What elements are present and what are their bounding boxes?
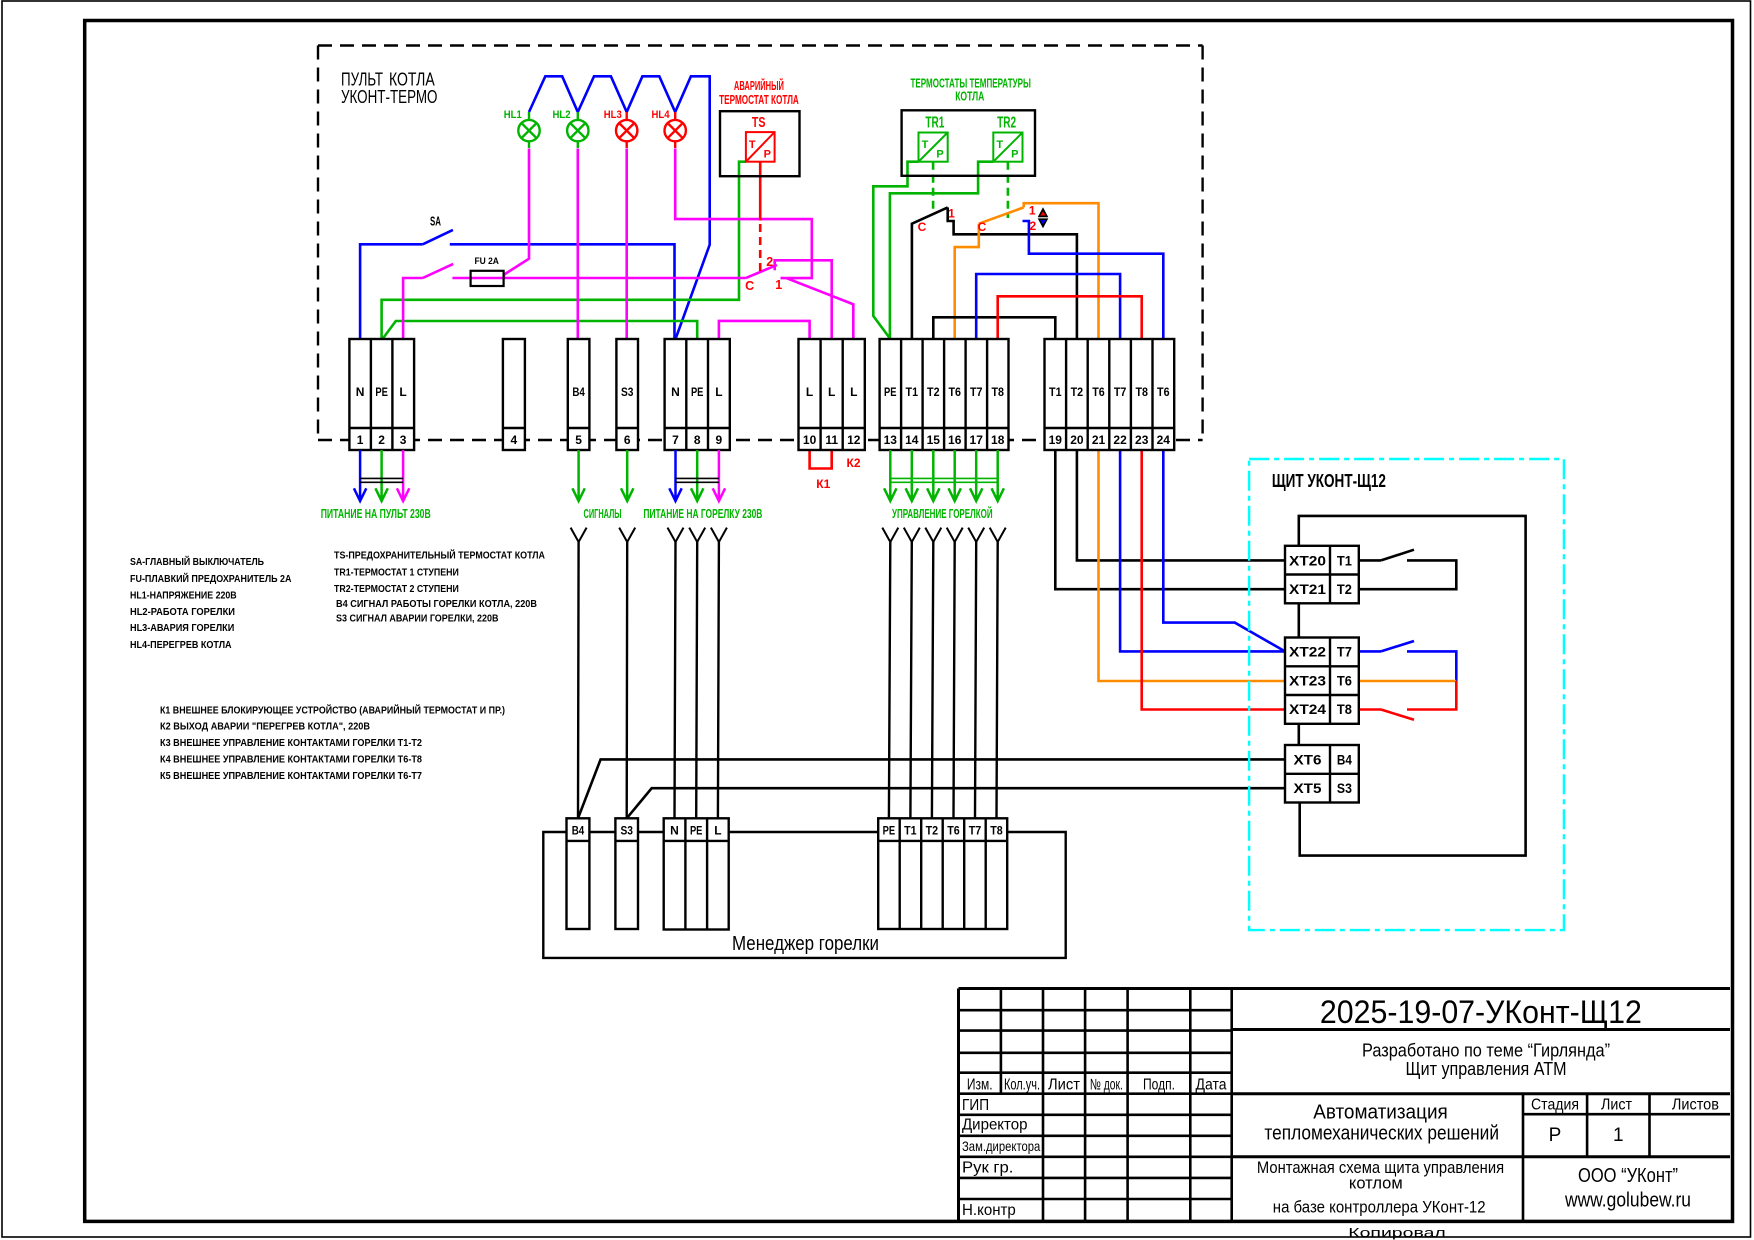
svg-text:T6: T6 bbox=[947, 824, 960, 838]
svg-text:L: L bbox=[399, 385, 406, 399]
svg-text:XT22: XT22 bbox=[1289, 644, 1326, 660]
svg-text:ПИТАНИЕ НА ПУЛЬТ 230В: ПИТАНИЕ НА ПУЛЬТ 230В bbox=[321, 507, 431, 521]
svg-text:3: 3 bbox=[400, 433, 407, 447]
svg-text:PE: PE bbox=[884, 385, 897, 399]
svg-text:T2: T2 bbox=[926, 824, 939, 838]
svg-text:Кол.уч.: Кол.уч. bbox=[1004, 1077, 1040, 1094]
svg-text:К5 ВНЕШНЕЕ УПРАВЛЕНИЕ КОНТАКТА: К5 ВНЕШНЕЕ УПРАВЛЕНИЕ КОНТАКТАМИ ГОРЕЛКИ… bbox=[160, 771, 422, 782]
svg-text:L: L bbox=[806, 385, 813, 399]
svg-text:Лист: Лист bbox=[1601, 1097, 1633, 1114]
svg-text:24: 24 bbox=[1157, 433, 1171, 447]
svg-text:23: 23 bbox=[1135, 433, 1149, 447]
svg-text:T7: T7 bbox=[1337, 644, 1352, 660]
svg-text:P: P bbox=[764, 149, 771, 161]
svg-text:HL4: HL4 bbox=[652, 109, 671, 121]
svg-text:К1: К1 bbox=[816, 477, 830, 491]
svg-text:T8: T8 bbox=[990, 824, 1003, 838]
svg-text:Рук гр.: Рук гр. bbox=[962, 1160, 1013, 1177]
svg-text:Директор: Директор bbox=[962, 1117, 1028, 1134]
svg-text:PE: PE bbox=[375, 385, 388, 399]
svg-text:1: 1 bbox=[357, 433, 364, 447]
svg-text:SA-ГЛАВНЫЙ ВЫКЛЮЧАТЕЛЬ: SA-ГЛАВНЫЙ ВЫКЛЮЧАТЕЛЬ bbox=[130, 555, 264, 568]
svg-text:P: P bbox=[1011, 149, 1018, 161]
svg-text:XT24: XT24 bbox=[1289, 701, 1326, 717]
svg-text:T7: T7 bbox=[969, 824, 982, 838]
svg-text:T8: T8 bbox=[1337, 701, 1352, 717]
svg-text:T1: T1 bbox=[1337, 552, 1352, 568]
svg-text:22: 22 bbox=[1113, 433, 1127, 447]
svg-text:T7: T7 bbox=[970, 385, 983, 399]
svg-text:L: L bbox=[714, 824, 721, 838]
svg-text:2025-19-07-УКонт-Щ12: 2025-19-07-УКонт-Щ12 bbox=[1320, 994, 1642, 1030]
svg-text:HL3-АВАРИЯ ГОРЕЛКИ: HL3-АВАРИЯ ГОРЕЛКИ bbox=[130, 623, 234, 634]
svg-text:C: C bbox=[978, 220, 987, 234]
svg-text:P: P bbox=[936, 149, 943, 161]
svg-text:T2: T2 bbox=[1337, 581, 1352, 597]
svg-text:К2: К2 bbox=[847, 456, 861, 470]
svg-text:14: 14 bbox=[905, 433, 919, 447]
svg-text:Изм.: Изм. bbox=[967, 1077, 993, 1094]
svg-text:L: L bbox=[828, 385, 835, 399]
svg-text:TR2: TR2 bbox=[997, 115, 1016, 132]
svg-text:XT20: XT20 bbox=[1289, 552, 1326, 568]
svg-text:PE: PE bbox=[690, 824, 703, 838]
svg-text:T2: T2 bbox=[927, 385, 940, 399]
svg-text:К4 ВНЕШНЕЕ УПРАВЛЕНИЕ КОНТАКТА: К4 ВНЕШНЕЕ УПРАВЛЕНИЕ КОНТАКТАМИ ГОРЕЛКИ… bbox=[160, 755, 422, 766]
svg-text:8: 8 bbox=[694, 433, 701, 447]
svg-text:К1 ВНЕШНЕЕ БЛОКИРУЮЩЕЕ УСТРОЙС: К1 ВНЕШНЕЕ БЛОКИРУЮЩЕЕ УСТРОЙСТВО (АВАРИ… bbox=[160, 704, 505, 717]
svg-text:2: 2 bbox=[1029, 219, 1036, 233]
svg-text:ТЕРМОСТАТ КОТЛА: ТЕРМОСТАТ КОТЛА bbox=[719, 93, 799, 107]
svg-text:Стадия: Стадия bbox=[1531, 1097, 1579, 1114]
svg-text:7: 7 bbox=[672, 433, 679, 447]
svg-text:XT23: XT23 bbox=[1289, 672, 1326, 688]
svg-text:Р: Р bbox=[1549, 1125, 1562, 1146]
svg-text:PE: PE bbox=[883, 824, 896, 838]
svg-text:Копировал: Копировал bbox=[1348, 1225, 1446, 1240]
svg-text:Лист: Лист bbox=[1048, 1077, 1080, 1094]
svg-text:N: N bbox=[356, 385, 365, 399]
svg-text:L: L bbox=[850, 385, 857, 399]
svg-text:ГИП: ГИП bbox=[962, 1097, 989, 1114]
svg-text:XT21: XT21 bbox=[1289, 581, 1326, 597]
svg-text:HL2: HL2 bbox=[553, 109, 571, 121]
svg-text:Разработано по теме “Гирлянда”: Разработано по теме “Гирлянда” bbox=[1362, 1041, 1610, 1061]
svg-text:HL1: HL1 bbox=[504, 109, 522, 121]
svg-text:котлом: котлом bbox=[1349, 1175, 1403, 1193]
svg-text:C: C bbox=[918, 220, 927, 234]
svg-text:Автоматизация: Автоматизация bbox=[1313, 1101, 1448, 1123]
svg-text:S3: S3 bbox=[621, 385, 634, 399]
svg-text:15: 15 bbox=[927, 433, 941, 447]
svg-text:N: N bbox=[671, 385, 680, 399]
svg-text:17: 17 bbox=[970, 433, 984, 447]
svg-text:1: 1 bbox=[948, 207, 955, 221]
svg-text:10: 10 bbox=[803, 433, 817, 447]
svg-text:T: T bbox=[996, 139, 1003, 151]
svg-text:2: 2 bbox=[766, 255, 773, 269]
svg-text:T: T bbox=[749, 139, 756, 151]
svg-text:6: 6 bbox=[624, 433, 631, 447]
svg-text:20: 20 bbox=[1070, 433, 1084, 447]
svg-text:HL4-ПЕРЕГРЕВ КОТЛА: HL4-ПЕРЕГРЕВ КОТЛА bbox=[130, 640, 232, 651]
svg-text:T6: T6 bbox=[1157, 385, 1170, 399]
svg-text:B4: B4 bbox=[1337, 752, 1352, 768]
svg-text:B4 СИГНАЛ РАБОТЫ ГОРЕЛКИ КОТЛА: B4 СИГНАЛ РАБОТЫ ГОРЕЛКИ КОТЛА, 220В bbox=[336, 599, 537, 610]
svg-text:АВАРИЙНЫЙ: АВАРИЙНЫЙ bbox=[734, 78, 784, 93]
svg-text:УКОНТ-ТЕРМО: УКОНТ-ТЕРМО bbox=[341, 87, 438, 107]
svg-text:XT6: XT6 bbox=[1294, 752, 1322, 768]
svg-text:T1: T1 bbox=[904, 824, 917, 838]
svg-text:СИГНАЛЫ: СИГНАЛЫ bbox=[584, 507, 622, 521]
svg-text:L: L bbox=[715, 385, 722, 399]
svg-text:КОТЛА: КОТЛА bbox=[955, 89, 984, 103]
svg-text:Дата: Дата bbox=[1196, 1077, 1227, 1094]
svg-text:B4: B4 bbox=[572, 824, 585, 838]
svg-text:Зам.директора: Зам.директора bbox=[962, 1138, 1040, 1154]
svg-text:12: 12 bbox=[847, 433, 861, 447]
svg-text:T6: T6 bbox=[948, 385, 961, 399]
svg-text:ЩИТ УКОНТ-Щ12: ЩИТ УКОНТ-Щ12 bbox=[1272, 471, 1386, 491]
svg-text:FU-ПЛАВКИЙ ПРЕДОХРАНИТЕЛЬ 2А: FU-ПЛАВКИЙ ПРЕДОХРАНИТЕЛЬ 2А bbox=[130, 572, 292, 585]
svg-text:T: T bbox=[922, 139, 929, 151]
svg-text:13: 13 bbox=[884, 433, 898, 447]
svg-text:Н.контр: Н.контр bbox=[962, 1202, 1016, 1219]
svg-text:S3: S3 bbox=[1337, 780, 1352, 796]
svg-text:на базе контроллера УКонт-12: на базе контроллера УКонт-12 bbox=[1273, 1199, 1486, 1217]
svg-text:Листов: Листов bbox=[1672, 1097, 1719, 1114]
svg-text:Менеджер горелки: Менеджер горелки bbox=[732, 933, 879, 955]
svg-text:18: 18 bbox=[991, 433, 1005, 447]
svg-text:SA: SA bbox=[430, 215, 441, 229]
svg-text:T8: T8 bbox=[991, 385, 1004, 399]
svg-text:B4: B4 bbox=[572, 385, 585, 399]
svg-text:PE: PE bbox=[691, 385, 704, 399]
svg-text:TR2-ТЕРМОСТАТ 2 СТУПЕНИ: TR2-ТЕРМОСТАТ 2 СТУПЕНИ bbox=[334, 584, 459, 595]
svg-text:HL2-РАБОТА ГОРЕЛКИ: HL2-РАБОТА ГОРЕЛКИ bbox=[130, 607, 235, 618]
svg-text:TS-ПРЕДОХРАНИТЕЛЬНЫЙ ТЕРМОСТАТ: TS-ПРЕДОХРАНИТЕЛЬНЫЙ ТЕРМОСТАТ КОТЛА bbox=[334, 549, 545, 562]
svg-text:T1: T1 bbox=[906, 385, 919, 399]
svg-text:Подп.: Подп. bbox=[1143, 1077, 1175, 1094]
svg-text:16: 16 bbox=[948, 433, 962, 447]
svg-text:№ док.: № док. bbox=[1090, 1077, 1123, 1094]
svg-text:21: 21 bbox=[1092, 433, 1106, 447]
svg-text:4: 4 bbox=[511, 433, 518, 447]
svg-text:К3 ВНЕШНЕЕ УПРАВЛЕНИЕ КОНТАКТА: К3 ВНЕШНЕЕ УПРАВЛЕНИЕ КОНТАКТАМИ ГОРЕЛКИ… bbox=[160, 738, 422, 749]
svg-text:HL1-НАПРЯЖЕНИЕ 220В: HL1-НАПРЯЖЕНИЕ 220В bbox=[130, 591, 237, 602]
svg-text:TR1-ТЕРМОСТАТ 1 СТУПЕНИ: TR1-ТЕРМОСТАТ 1 СТУПЕНИ bbox=[334, 568, 459, 579]
svg-text:1: 1 bbox=[1029, 204, 1036, 218]
svg-text:5: 5 bbox=[575, 433, 582, 447]
svg-text:S3 СИГНАЛ АВАРИИ ГОРЕЛКИ, 220В: S3 СИГНАЛ АВАРИИ ГОРЕЛКИ, 220В bbox=[336, 614, 499, 625]
svg-text:T1: T1 bbox=[1049, 385, 1062, 399]
svg-text:TR1: TR1 bbox=[925, 115, 944, 132]
svg-text:T8: T8 bbox=[1135, 385, 1148, 399]
svg-text:T6: T6 bbox=[1092, 385, 1105, 399]
svg-text:УПРАВЛЕНИЕ ГОРЕЛКОЙ: УПРАВЛЕНИЕ ГОРЕЛКОЙ bbox=[892, 506, 993, 521]
svg-text:C: C bbox=[745, 279, 754, 293]
svg-text:T2: T2 bbox=[1071, 385, 1084, 399]
svg-text:ООО “УКонт”: ООО “УКонт” bbox=[1578, 1165, 1678, 1187]
svg-text:9: 9 bbox=[716, 433, 723, 447]
svg-text:К2 ВЫХОД АВАРИИ "ПЕРЕГРЕВ КОТЛ: К2 ВЫХОД АВАРИИ "ПЕРЕГРЕВ КОТЛА", 220В bbox=[160, 722, 370, 733]
svg-text:T6: T6 bbox=[1337, 672, 1352, 688]
svg-text:1: 1 bbox=[775, 278, 782, 292]
svg-text:тепломеханических решений: тепломеханических решений bbox=[1264, 1123, 1499, 1145]
svg-text:XT5: XT5 bbox=[1294, 780, 1322, 796]
svg-text:FU 2A: FU 2A bbox=[474, 256, 499, 267]
svg-text:Щит управления АТМ: Щит управления АТМ bbox=[1406, 1059, 1567, 1079]
svg-text:2: 2 bbox=[378, 433, 385, 447]
svg-text:19: 19 bbox=[1049, 433, 1063, 447]
svg-text:1: 1 bbox=[1613, 1125, 1624, 1146]
svg-text:S3: S3 bbox=[620, 824, 633, 838]
svg-text:T7: T7 bbox=[1114, 385, 1127, 399]
svg-text:TS: TS bbox=[752, 115, 766, 131]
svg-text:www.golubew.ru: www.golubew.ru bbox=[1564, 1190, 1691, 1212]
svg-text:N: N bbox=[670, 824, 679, 838]
svg-text:ПИТАНИЕ НА ГОРЕЛКУ 230В: ПИТАНИЕ НА ГОРЕЛКУ 230В bbox=[643, 507, 762, 521]
svg-text:HL3: HL3 bbox=[604, 109, 622, 121]
svg-text:11: 11 bbox=[825, 433, 838, 447]
